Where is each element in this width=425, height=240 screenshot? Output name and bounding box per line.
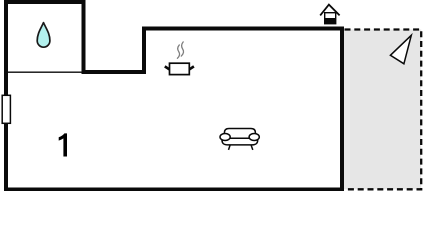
terrace (gray patio area) [344, 30, 421, 190]
room label 1 [59, 133, 67, 156]
partition wall (bathroom / room 1) [6, 71, 82, 73]
entrance icon (house above top wall) [320, 5, 339, 24]
window W1 (left wall) [2, 95, 10, 123]
terrace dashed border [345, 30, 422, 190]
steam (above cooking pot) [177, 42, 183, 58]
water drop icon (bathroom) [37, 23, 50, 48]
building outer wall [6, 2, 342, 190]
north arrow (terrace) [390, 35, 411, 64]
cooking pot icon (kitchen) [165, 63, 194, 74]
sofa icon [220, 129, 259, 150]
